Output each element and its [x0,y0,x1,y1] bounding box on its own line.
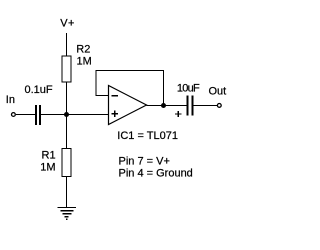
svg-text:V+: V+ [60,17,75,29]
wire C2 to Out [194,105,218,106]
capacitor C2 polarity + [175,111,181,117]
op-amp minus pin mark [111,95,118,96]
wire R1 to ground [66,176,67,207]
wire V+ to R2 [66,33,67,56]
capacitor C2 [187,96,194,116]
svg-text:Out: Out [209,85,227,97]
svg-text:10uF: 10uF [177,83,200,95]
svg-text:1M: 1M [40,161,55,173]
wire feedback: left vertical [96,70,97,96]
svg-text:IC1 = TL071: IC1 = TL071 [117,130,178,142]
wire feedback: right vertical [163,70,164,105]
wire node A to R1 [66,115,67,149]
svg-text:0.1uF: 0.1uF [25,84,53,96]
svg-text:Pin 4 = Ground: Pin 4 = Ground [119,167,193,179]
resistor R2 [62,56,71,82]
capacitor C1 [35,105,41,125]
terminal In [12,113,16,117]
op-amp plus pin mark [112,111,118,117]
svg-text:R2: R2 [76,43,90,55]
wire C1 to op-amp + input [41,114,109,115]
ground [58,207,77,220]
node A junction [64,112,69,117]
wire feedback: minus input stub [96,95,110,96]
terminal Out [217,104,221,108]
wire In to C1 [16,114,35,115]
wire op-amp output to C2 [147,105,187,106]
wire R2 to node A [66,82,67,115]
resistor R1 [62,149,71,177]
svg-text:In: In [6,94,15,106]
svg-text:R1: R1 [42,149,56,161]
svg-text:1M: 1M [77,55,92,67]
op-amp U1 triangle [109,86,147,125]
svg-text:Pin 7 = V+: Pin 7 = V+ [119,155,170,167]
node B junction (output/feedback) [161,103,166,108]
wire feedback: top rail [96,70,165,71]
